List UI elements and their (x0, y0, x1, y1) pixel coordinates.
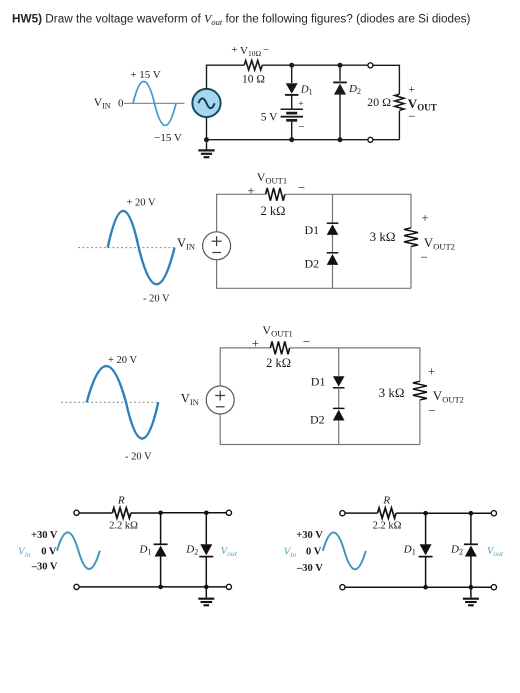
resistor 3k (circuit2) (404, 228, 418, 288)
label Vout (bottom-right) (487, 545, 504, 558)
resistor 2k (circuit3) (270, 342, 289, 355)
wire terminal to right branch top (373, 65, 400, 94)
waveform VIN sine 2 (108, 211, 175, 284)
label Vin (bottom-left) (18, 546, 31, 559)
value 20 ohm (367, 95, 391, 109)
source VIN circle 2 (203, 232, 231, 260)
junction node top D2 (338, 63, 343, 68)
wire D2 node to top terminal (340, 64, 368, 66)
junction node top D1 (289, 63, 294, 68)
terminal bottom-left (open, bottom-left ckt) (74, 584, 79, 589)
wire resistor to node1 (bottom-right) (396, 512, 426, 514)
label D2 (circuit3) (310, 413, 325, 427)
value 2 kohm (circuit3) (266, 356, 291, 370)
label D1 (circuit2) (305, 223, 320, 237)
diode D1 (285, 65, 298, 95)
wire bottom (bottom-right) (345, 586, 491, 588)
terminal top-right (open, bottom-right ckt) (491, 511, 496, 516)
svg-text:−: − (408, 109, 415, 124)
svg-text:3 kΩ: 3 kΩ (379, 385, 405, 400)
svg-text:−: − (428, 403, 435, 418)
diode D1 (circuit2) (327, 194, 339, 235)
resistor 2k (circuit2) (266, 188, 285, 201)
diode D1 (bottom-left, pointing up) (154, 513, 168, 587)
value 3 kohm (circuit2) (370, 229, 396, 244)
resistor R 2.2k (bottom-left) (112, 508, 131, 518)
label D1 (bottom-left) (139, 543, 152, 556)
wire bottom (circuit2) (217, 260, 411, 289)
svg-text:+: + (247, 184, 254, 198)
diode D2 (333, 65, 347, 140)
junction node2 top (bottom-left) (204, 511, 209, 516)
wire terminal to resistor (bottom-left) (79, 512, 112, 514)
title HW5 (12, 12, 470, 28)
resistor 10 ohm (244, 60, 262, 70)
wire resistor to mid branch 3 (290, 347, 339, 349)
value 2.2 kohm (bottom-left) (109, 521, 138, 532)
label -20 V (circuit3) (125, 451, 152, 462)
label +30 V (bottom-left) (31, 530, 58, 541)
ground (bottom-right) (463, 587, 479, 605)
waveform axis (dash-dot) (78, 247, 175, 249)
terminal top-right (open, bottom-left ckt) (226, 510, 231, 515)
value 10 ohm (242, 74, 265, 86)
label + V10ohm - (231, 44, 269, 58)
label VOUT (408, 82, 437, 124)
value 2.2 kohm (bottom-right) (373, 520, 402, 531)
label Vout (bottom-left) (221, 545, 238, 558)
wire source to resistor (207, 65, 245, 89)
ground (198, 140, 214, 158)
wire resistor to mid branch 2 (285, 193, 333, 195)
svg-text:−15 V: −15 V (154, 132, 182, 144)
label -30 V (bottom-right) (296, 563, 323, 574)
wire D1 to D2 (circuit2) (332, 235, 334, 253)
svg-text:R: R (117, 495, 125, 507)
svg-text:+ 20 V: + 20 V (108, 355, 137, 366)
svg-text:–30 V: –30 V (31, 562, 58, 573)
resistor 20 ohm (395, 94, 404, 140)
terminal bottom-right (open, bottom-left ckt) (226, 584, 231, 589)
diode D2 (bottom-left, pointing down) (199, 513, 213, 587)
wire D1 to D2 (circuit3) (338, 388, 340, 409)
wire node1 to node2 (bottom-right) (426, 512, 471, 514)
svg-text:D2: D2 (310, 413, 325, 427)
wire mid to right top 2 (333, 194, 412, 228)
svg-text:D1: D1 (305, 223, 320, 237)
waveform Vin sine (bottom-right) (323, 533, 366, 570)
svg-text:–30 V: –30 V (296, 563, 323, 574)
diode D2 (bottom-right, pointing up) (464, 513, 478, 587)
wire bottom (bottom-left) (79, 586, 226, 588)
svg-text:D1: D1 (311, 374, 326, 388)
label D2 (bottom-right) (450, 543, 463, 556)
battery 5 V (281, 95, 303, 140)
label VIN 0 (94, 97, 124, 110)
svg-text:−: − (298, 180, 305, 195)
wire mid to right top 3 (339, 348, 420, 381)
wire source top 3 (220, 348, 270, 386)
waveform VIN sine (133, 81, 176, 125)
junction node bottom D2 (338, 137, 343, 142)
svg-text:+: + (408, 82, 415, 96)
wire bottom (207, 139, 368, 141)
waveform VIN sine 3 (87, 366, 159, 439)
value 2 kohm (circuit2) (261, 204, 286, 218)
waveform Vin sine (bottom-left) (57, 532, 100, 569)
label 5 V (261, 111, 278, 123)
label R (bottom-right) (382, 495, 390, 507)
wire resistor to D1 node (262, 64, 292, 66)
junction node2 bottom (bottom-left) (204, 585, 209, 590)
wire resistor to node1 (bottom-left) (131, 512, 161, 514)
terminal top (open) (368, 63, 373, 68)
wire node1 to node2 (bottom-left) (161, 512, 207, 514)
svg-text:0 V: 0 V (306, 547, 322, 558)
svg-text:+30 V: +30 V (31, 530, 58, 541)
label D1 (bottom-right) (403, 543, 416, 556)
svg-text:+ 20 V: + 20 V (127, 198, 156, 209)
battery polarity + (298, 100, 303, 110)
label VIN (circuit3) (181, 392, 199, 408)
junction node source bottom (204, 137, 209, 142)
label D1 (300, 83, 313, 96)
battery polarity - (298, 121, 304, 133)
label +30 V (bottom-right) (296, 530, 323, 541)
junction node1 top (bottom-right) (423, 511, 428, 516)
svg-text:20 Ω: 20 Ω (367, 95, 391, 109)
label -20 V (143, 293, 170, 304)
svg-text:- 20 V: - 20 V (143, 293, 170, 304)
wire source top 2 (217, 194, 266, 232)
svg-text:HW5) Draw the voltage waveform: HW5) Draw the voltage waveform of Vout f… (12, 12, 470, 28)
value 3 kohm (circuit3) (379, 385, 405, 400)
wire node2 to right terminal (bottom-right) (471, 512, 491, 514)
label D2 (bottom-left) (185, 543, 198, 556)
svg-text:R: R (382, 495, 390, 507)
label 0 V (bottom-left) (41, 547, 57, 558)
resistor 3k (circuit3) (413, 381, 427, 444)
svg-text:2.2 kΩ: 2.2 kΩ (373, 520, 402, 531)
svg-text:D2: D2 (305, 256, 320, 270)
wire bottom (circuit3) (220, 414, 420, 445)
label +20 V (127, 198, 156, 209)
svg-text:0: 0 (118, 97, 124, 109)
terminal top-left (open, bottom-left ckt) (74, 510, 79, 515)
svg-text:+30 V: +30 V (296, 530, 323, 541)
svg-text:+: + (298, 100, 303, 110)
wire terminal to resistor (bottom-right) (345, 512, 378, 514)
junction node2 top (bottom-right) (469, 511, 474, 516)
svg-text:3 kΩ: 3 kΩ (370, 229, 396, 244)
svg-text:+: + (428, 364, 435, 378)
label VOUT1 (circuit3) (252, 323, 310, 351)
svg-text:5 V: 5 V (261, 111, 278, 123)
label VOUT1 (circuit2) (247, 170, 305, 198)
label VOUT2 (circuit3) (428, 364, 464, 418)
junction node1 top (bottom-left) (158, 511, 163, 516)
terminal bottom-right (open, bottom-right ckt) (491, 585, 496, 590)
svg-text:−: − (263, 44, 269, 56)
svg-text:2.2 kΩ: 2.2 kΩ (109, 521, 138, 532)
label D2 (348, 83, 361, 96)
wire node2 to right terminal (bottom-left) (206, 512, 226, 514)
svg-text:+: + (421, 211, 428, 225)
label +20 V (circuit3) (108, 355, 137, 366)
wire D1 node to D2 node (292, 64, 340, 66)
junction node1 bottom (bottom-left) (158, 585, 163, 590)
label VIN 2 (177, 236, 195, 252)
label VOUT2 (circuit2) (421, 211, 455, 265)
waveform VIN graph axis (124, 102, 185, 104)
source VIN circle 3 (206, 386, 234, 414)
ground (bottom-left) (198, 587, 214, 605)
label R (bottom-left) (117, 495, 125, 507)
label +15 V (130, 69, 161, 81)
label -30 V (bottom-left) (31, 562, 58, 573)
junction node1 bottom (bottom-right) (423, 585, 428, 590)
svg-text:2 kΩ: 2 kΩ (266, 356, 291, 370)
svg-text:+: + (231, 44, 237, 56)
diode D2 (circuit3) (333, 408, 345, 444)
junction node bottom D1 (289, 137, 294, 142)
label Vin (bottom-right) (284, 546, 297, 559)
label D2 (circuit2) (305, 256, 320, 270)
diode D1 (bottom-right, pointing down) (419, 513, 433, 587)
resistor R 2.2k (bottom-right) (378, 508, 397, 518)
svg-text:+: + (252, 337, 259, 351)
label -15 V (154, 132, 182, 144)
label D1 (circuit3) (311, 374, 326, 388)
svg-text:0 V: 0 V (41, 547, 57, 558)
svg-text:−: − (303, 334, 310, 349)
wire bottom right (373, 139, 400, 141)
diode D2 (circuit2) (327, 253, 339, 288)
svg-text:- 20 V: - 20 V (125, 451, 152, 462)
svg-text:+ 15 V: + 15 V (130, 69, 161, 81)
svg-text:10 Ω: 10 Ω (242, 74, 265, 86)
diode D1 (circuit3) (333, 348, 345, 388)
terminal top-left (open, bottom-right ckt) (340, 511, 345, 516)
waveform axis 3 (dash-dot) (61, 401, 159, 403)
junction node2 bottom (bottom-right) (469, 585, 474, 590)
svg-text:−: − (298, 121, 304, 133)
ac source VS1 (192, 89, 220, 117)
label 0 V (bottom-right) (306, 547, 322, 558)
terminal bottom (open) (368, 137, 373, 142)
svg-text:−: − (421, 249, 428, 264)
svg-text:2 kΩ: 2 kΩ (261, 204, 286, 218)
wire source bottom (206, 117, 208, 140)
terminal bottom-left (open, bottom-right ckt) (340, 585, 345, 590)
